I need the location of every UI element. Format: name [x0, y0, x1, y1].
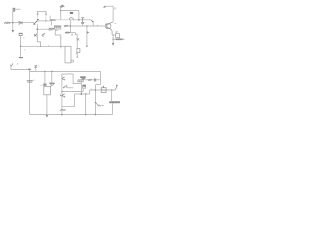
label: [24, 49, 26, 51]
wire: [60, 46, 62, 48]
wire: [12, 11, 14, 22]
label: [71, 33, 73, 36]
net arrow up: [115, 86, 117, 90]
wire: [61, 74, 63, 115]
wire: [62, 91, 83, 93]
wire: [112, 6, 114, 22]
wire: [55, 29, 61, 46]
junction: [40, 46, 41, 47]
wire: [50, 21, 52, 26]
transistor Q5: [62, 77, 65, 80]
wire: [4, 22, 34, 24]
tick: [91, 89, 93, 90]
wire: [90, 89, 116, 91]
label: [49, 30, 58, 32]
wire: [37, 42, 40, 46]
resistor R9: [88, 79, 92, 81]
wire: [20, 36, 22, 57]
junction: [45, 20, 46, 21]
wire: [118, 37, 120, 39]
inductor L1: [50, 19, 56, 20]
junction: [80, 93, 82, 95]
wire: [62, 74, 81, 84]
wire bus2: [21, 45, 65, 47]
wire: [112, 35, 114, 43]
diode D4: [64, 85, 67, 87]
wire: [85, 79, 100, 81]
wire: [94, 90, 96, 115]
wire: [85, 94, 87, 115]
junction: [86, 25, 88, 27]
wire: [111, 103, 113, 114]
diode D2: [91, 20, 93, 22]
relay K1: [116, 34, 120, 38]
relay K2: [44, 86, 51, 94]
wire: [82, 88, 84, 91]
inductor L2: [69, 18, 73, 20]
junction: [85, 93, 87, 95]
transistor Q1: [105, 22, 113, 35]
label: [114, 8, 117, 9]
wire: [80, 78, 82, 94]
junction: [95, 89, 97, 91]
label: [33, 79, 35, 81]
ground arrow: [112, 43, 115, 46]
diode D5: [103, 87, 104, 89]
wire: [51, 71, 53, 82]
wire: [11, 66, 30, 69]
ground arrow: [46, 115, 49, 118]
junction: [44, 71, 46, 73]
wire: [95, 84, 100, 86]
star mark: [77, 38, 80, 40]
capacitor C7: [49, 83, 54, 84]
wire: [89, 90, 91, 94]
junction: [95, 114, 97, 116]
wire: [65, 32, 76, 34]
wire: [61, 10, 79, 12]
junction: [28, 69, 31, 71]
label: [17, 64, 19, 65]
wire: [67, 87, 73, 89]
wire: [78, 11, 80, 20]
crystal Y1: [13, 8, 15, 11]
wire: [49, 16, 51, 20]
zener D6: [95, 103, 104, 106]
junction: [61, 91, 62, 92]
resistor R2: [49, 28, 54, 30]
resistor R3: [64, 25, 68, 27]
wire: [71, 19, 91, 21]
tick: [37, 65, 40, 66]
net arrow: [103, 6, 106, 8]
tick: [60, 37, 61, 39]
wire: [74, 93, 89, 95]
wire: [99, 71, 101, 84]
wire: [111, 90, 113, 101]
label: [23, 37, 25, 39]
capacitor C5: [27, 79, 33, 82]
wire bus4: [30, 114, 113, 116]
resistor R6: [60, 109, 65, 111]
wire: [94, 85, 96, 90]
junction: [112, 39, 113, 40]
resistor R5: [65, 32, 70, 34]
connector J1: [54, 26, 61, 27]
connector P1: [19, 33, 22, 35]
junction: [60, 10, 61, 11]
wire: [104, 5, 113, 7]
wire: [35, 68, 37, 71]
wire: [44, 71, 46, 86]
label: [114, 23, 116, 25]
capacitor C8: [95, 78, 96, 81]
junction: [85, 114, 87, 116]
ferrite bead FB1: [70, 12, 73, 14]
transistor Q6: [60, 94, 65, 97]
diode D3: [77, 49, 80, 53]
transistor Q2: [34, 33, 45, 37]
junction: [51, 71, 53, 73]
net stub with flag: [60, 7, 62, 20]
wire: [29, 69, 31, 114]
potentiometer VR1: [65, 46, 71, 63]
junction: [61, 114, 63, 116]
wire bus3: [30, 70, 101, 72]
ground arrow: [12, 23, 14, 30]
junction: [37, 20, 38, 21]
label: [41, 85, 44, 87]
wire: [36, 28, 54, 30]
wire: [86, 26, 88, 46]
junction: [111, 89, 113, 91]
tick: [47, 45, 49, 46]
wire: [36, 24, 38, 42]
wire: [64, 25, 106, 27]
net flag: [87, 31, 89, 33]
junction: [37, 28, 39, 30]
wire: [45, 16, 47, 21]
resistor R8: [109, 101, 120, 103]
junction: [86, 45, 88, 47]
wire: [15, 8, 21, 10]
junction: [20, 46, 22, 48]
wire: [69, 20, 71, 33]
junction: [78, 19, 80, 21]
capacitor C2: [81, 18, 84, 24]
label: [115, 31, 118, 34]
diode D1: [19, 21, 22, 24]
wire: [39, 20, 51, 22]
net bracket with arrows: [38, 11, 46, 14]
junction: [12, 22, 14, 24]
tick: [96, 25, 98, 26]
wire: [37, 16, 39, 21]
junction: [70, 25, 72, 27]
wire: [62, 94, 75, 107]
transistor Q2a symbol: [34, 20, 39, 25]
wire: [112, 34, 116, 36]
star mark: [34, 65, 37, 68]
wire: [76, 33, 78, 49]
resistor R1: [4, 22, 10, 24]
capacitor C6: [43, 84, 46, 85]
antenna arrow: [10, 63, 13, 66]
IC U1: [80, 76, 86, 78]
wire: [56, 19, 71, 21]
wire: [46, 95, 48, 115]
resistor R4: [113, 38, 125, 40]
junction: [60, 46, 61, 47]
resistor R7: [101, 88, 106, 93]
component blob: [82, 85, 86, 87]
capacitor C4: [19, 57, 23, 58]
